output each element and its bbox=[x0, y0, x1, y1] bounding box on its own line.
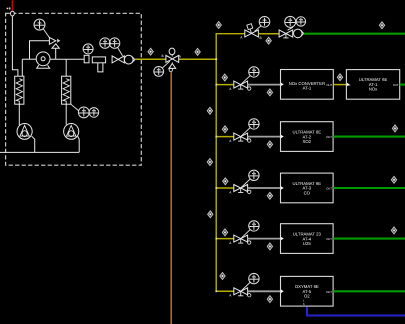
flag line row6 bbox=[267, 296, 272, 303]
sample bus yellow bbox=[216, 34, 244, 292]
wire pump P2 out bbox=[32, 136, 35, 152]
instrument balloon row2 bbox=[249, 67, 259, 77]
instrument balloon row3 bbox=[249, 119, 259, 129]
svg-text:O2: O2 bbox=[304, 294, 310, 299]
instrument balloon AI-1c bbox=[296, 17, 305, 26]
instrument balloon PI-6 bbox=[109, 38, 119, 48]
border connector bbox=[11, 11, 15, 16]
instrument balloon row6 bbox=[249, 273, 259, 283]
wire yellow converter out bbox=[333, 84, 346, 86]
green line row5 bbox=[333, 238, 405, 240]
svg-text:A: A bbox=[229, 87, 232, 91]
3-way valve V3 bbox=[162, 48, 182, 72]
wire bus stub row5 bbox=[216, 238, 233, 240]
svg-text:AT-1: AT-1 bbox=[303, 85, 312, 90]
wire return header bbox=[0, 151, 79, 153]
wire balloon tail bbox=[43, 29, 49, 38]
flag bus row4 bbox=[223, 178, 228, 185]
wire yellow row1 mid bbox=[258, 33, 279, 35]
wire balloon tail row1 bbox=[255, 26, 261, 31]
svg-text:OUT: OUT bbox=[393, 84, 399, 87]
green line row1 bbox=[304, 33, 405, 35]
instrument balloon row5 bbox=[249, 221, 259, 231]
wire inlet drop bbox=[12, 16, 18, 76]
wire bus stub row4 bbox=[216, 187, 233, 189]
blue signal line bbox=[307, 307, 405, 316]
wire balloon tail row1b bbox=[288, 27, 293, 30]
valve V4 row1 bbox=[240, 24, 261, 40]
valve SV-3 bbox=[229, 179, 251, 195]
instrument balloon AI-1a bbox=[259, 17, 270, 28]
orange vent line bbox=[170, 72, 172, 324]
junction node row2 bbox=[215, 84, 217, 86]
instrument balloon FI-3 bbox=[89, 108, 99, 118]
instrument balloon PI-5 bbox=[100, 38, 110, 48]
valve SV-4 bbox=[229, 229, 251, 245]
flow element FE-1 bbox=[124, 55, 135, 64]
flag D4 bbox=[266, 37, 271, 44]
svg-text:OUT: OUT bbox=[326, 136, 332, 139]
wire sample gray row3 bbox=[248, 136, 281, 138]
valve SV-1 bbox=[229, 75, 251, 91]
wire suction bbox=[22, 58, 36, 60]
main sample line yellow bbox=[135, 58, 216, 60]
green line row2 bbox=[400, 84, 405, 86]
svg-text:NOx: NOx bbox=[369, 87, 378, 92]
valve SV-5 bbox=[229, 282, 251, 298]
analyzer ULTRAMAT 6E AT-1 bbox=[346, 70, 399, 100]
flow element FE-2 row1 bbox=[294, 29, 304, 38]
valve V2 bbox=[112, 56, 124, 63]
filter F1 bbox=[92, 57, 105, 72]
instrument balloon row4 bbox=[249, 170, 259, 180]
flag D5 bbox=[379, 22, 384, 29]
instrument balloon PI-1 bbox=[34, 19, 45, 30]
green line row4 bbox=[333, 187, 405, 189]
svg-text:OUT: OUT bbox=[326, 291, 332, 294]
wire bus stub row6 bbox=[216, 290, 233, 292]
flag bus row5 bbox=[222, 229, 227, 236]
svg-text:B: B bbox=[260, 36, 262, 40]
wire manifold bbox=[30, 41, 50, 60]
flag line row2 bbox=[267, 89, 272, 96]
flag D1 bbox=[148, 48, 153, 55]
flag D2 bbox=[195, 48, 200, 55]
wire sample gray row4 bbox=[248, 187, 281, 189]
heater H2 bbox=[62, 76, 71, 104]
svg-text:A: A bbox=[229, 139, 232, 143]
wire heater1 feed bbox=[21, 59, 23, 76]
flag left 3 bbox=[208, 211, 213, 218]
valve SV-2 bbox=[229, 127, 251, 143]
svg-text:6: 6 bbox=[303, 303, 305, 306]
junction node row3 bbox=[215, 136, 217, 138]
enclosure dashed box bbox=[6, 13, 142, 165]
flag converter out bbox=[337, 74, 342, 81]
wire pump P3 out bbox=[78, 136, 79, 152]
valve body C1 bbox=[84, 55, 89, 63]
regulator valve PCV-1 bbox=[49, 37, 60, 59]
svg-text:U25: U25 bbox=[303, 241, 311, 246]
junction node row4 bbox=[215, 187, 217, 189]
analyzer ULTRAMAT 23 AT-4 bbox=[281, 224, 334, 254]
flag green row3 bbox=[392, 125, 397, 132]
wire bus stub row3 bbox=[216, 136, 233, 138]
red supply line bbox=[11, 0, 13, 11]
flag line row5 bbox=[267, 243, 272, 250]
instrument balloon AI-1b bbox=[285, 16, 296, 27]
analyzer OXYMAT 6E AT-5 bbox=[281, 276, 334, 306]
pump P2 bbox=[17, 123, 32, 139]
wire discharge bbox=[50, 58, 84, 60]
wire balloon tail to V2 bbox=[118, 47, 123, 56]
junction node main bbox=[215, 58, 217, 60]
instrument balloon AI-0 bbox=[154, 67, 164, 77]
flag D3 bbox=[216, 22, 221, 29]
wire heater2 out bbox=[65, 104, 67, 124]
wire heater2 analyzer tap bbox=[71, 104, 79, 110]
svg-text:A: A bbox=[240, 36, 243, 40]
instrument balloon PI-4 bbox=[83, 44, 93, 54]
svg-text:OUT: OUT bbox=[326, 188, 332, 191]
svg-text:IN: IN bbox=[348, 84, 351, 87]
compressor P1 bbox=[36, 52, 50, 68]
flag line row4 bbox=[267, 192, 272, 199]
wire sample gray row6 bbox=[248, 290, 281, 292]
heater H1 bbox=[15, 76, 24, 104]
svg-text:A: A bbox=[229, 190, 232, 194]
svg-text:B: B bbox=[162, 54, 164, 58]
analyzer ULTRAMAT 6E AT-3 bbox=[281, 173, 334, 203]
green line row6 bbox=[333, 290, 405, 292]
svg-text:OUT: OUT bbox=[326, 238, 332, 241]
valve V5 row1 bbox=[279, 30, 293, 38]
svg-text:OUT: OUT bbox=[326, 84, 332, 87]
svg-text:SO2: SO2 bbox=[303, 139, 312, 144]
pump P3 bbox=[64, 123, 79, 139]
wire bus stub row2 bbox=[216, 84, 233, 86]
svg-text:CO: CO bbox=[304, 190, 311, 195]
wire sample gray row2 bbox=[248, 84, 281, 86]
flag left 2 bbox=[207, 159, 212, 166]
flag bus row3 bbox=[222, 126, 227, 133]
svg-text:A: A bbox=[229, 241, 232, 245]
flag bus row2 bbox=[222, 74, 227, 81]
instrument balloon FI-2 bbox=[78, 107, 89, 118]
green line row3 bbox=[333, 136, 405, 138]
analyzer ULTRAMAT 6E AT-2 bbox=[281, 122, 334, 152]
analyzer NOx converter AT-1 bbox=[281, 70, 334, 100]
svg-text:A: A bbox=[229, 294, 232, 298]
svg-text:A: A bbox=[179, 54, 182, 58]
flag left 1 bbox=[207, 107, 212, 114]
wire heater2 feed bbox=[65, 59, 67, 76]
flag line row3 bbox=[267, 141, 272, 148]
tag TP bbox=[7, 7, 11, 9]
junction node row5 bbox=[215, 238, 217, 240]
wire heater1 out bbox=[18, 104, 20, 125]
wire balloon tail to V3 bbox=[162, 61, 170, 68]
flag bus row6 bbox=[220, 273, 225, 280]
flag green row4 bbox=[391, 176, 396, 183]
wire sample gray row5 bbox=[248, 238, 281, 240]
flag green row5 bbox=[391, 227, 396, 234]
junction node row6 bbox=[215, 290, 217, 292]
